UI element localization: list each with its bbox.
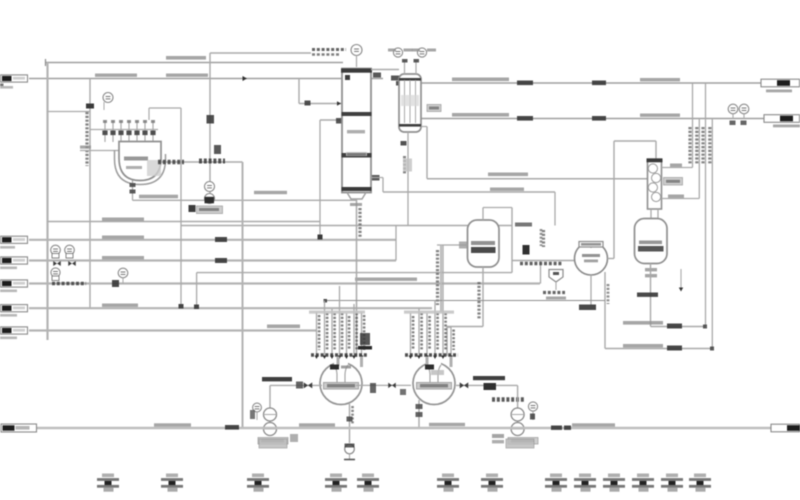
instrument on E-201 top b [417, 48, 426, 57]
wire: reactor bottoms line y200.3 [133, 199, 357, 201]
wire: branch y111 [48, 111, 91, 113]
tags near x551 on bottom line [551, 426, 562, 430]
valve manifold B verticals [410, 313, 412, 357]
wire: E-201 bottom drop x408 [407, 142, 409, 226]
wire: V-301 top riser [482, 208, 484, 221]
wire: B right line y385.4 [456, 384, 518, 386]
drain assembly D1 [102, 474, 114, 478]
wire: vertical v2 x699.3 (H5 to T2 lower) [698, 119, 700, 199]
wire: reactor outlet bottom [132, 181, 134, 201]
label: P-501A tag [258, 438, 288, 445]
wire: vertical x210 (y53-200) [209, 53, 211, 197]
valve on A left line [304, 382, 313, 388]
inline filter x526 [523, 245, 530, 255]
wire: feed line H2 from left flag (y78.5) [29, 78, 383, 80]
drain assembly D2 [166, 474, 178, 478]
wire: riser x540 to compressor suction [540, 261, 542, 284]
wire: transfer line y178.7 [427, 178, 648, 180]
wire: line L-F5 (y308.2) [29, 307, 432, 309]
wire: reactor product line y162 [158, 161, 243, 163]
label: column internals text [347, 130, 365, 133]
wire: B bottom drop [418, 400, 420, 428]
wire: elbow x396 [395, 226, 397, 261]
unit M-501 (dryer A) [320, 363, 362, 405]
drain assembly D10 [608, 474, 620, 478]
label: bottom line text 2 [299, 423, 335, 426]
stream flag F6 (y330.5) [1, 327, 28, 334]
wire: column feed arrow (y103.5) [299, 103, 342, 105]
label: reboiler tag box [664, 178, 683, 186]
label: line tag right of B [473, 376, 505, 380]
label: bottom line text 3 [429, 423, 465, 426]
instrument on F4 line [118, 268, 128, 278]
wire: line L-F2 (y239.8) [29, 239, 396, 241]
stream flag F4 (y283.5) [1, 280, 28, 287]
wire: compressor discharge [608, 258, 615, 260]
valve a on F3 line [53, 261, 61, 266]
wire: riser x299 from H2 [298, 79, 300, 104]
label: bottom line text 4 [572, 423, 615, 426]
instrument PI on column top [351, 45, 362, 56]
column T-402 top cap [647, 159, 663, 163]
stream flag OUT-1 (right) [761, 79, 800, 87]
wire: V-401 bottoms drop [650, 264, 652, 327]
label: E-201 tag box [427, 105, 441, 112]
wire: line H3 (y53) to column top [210, 52, 311, 54]
column T-201 mid tray band [342, 112, 372, 116]
label: vertical line tag v2 [695, 127, 698, 165]
wire: drop arrow x681 [680, 269, 682, 289]
wire: T-402 side nozzle y198.5 [662, 198, 700, 200]
column T-201 shell [342, 69, 371, 193]
wire: drop x447 to manifold B [446, 327, 448, 357]
label: box above bottom line x509 [506, 439, 534, 448]
wire: main left vertical x47.5 [46, 63, 48, 341]
instrument near P-501B [528, 402, 537, 411]
valve manifold B header row [405, 353, 458, 356]
instrument FI-a on H5 [728, 104, 738, 114]
reactor R-101 jacket [115, 150, 166, 185]
drain assembly D9 [579, 474, 591, 478]
valve cluster on y162 (left) [158, 160, 184, 165]
wire: A bottom drop [349, 404, 351, 443]
column T-402 shell [648, 159, 662, 209]
wire: A left line y385.4 [270, 384, 322, 386]
instrument pair on x210 [205, 182, 215, 192]
column T-402 packing balls [648, 164, 657, 173]
label: T1 tag cluster [312, 48, 346, 51]
valve manifold A verticals [316, 312, 318, 357]
stream flag F2 (y239.8) [1, 236, 28, 243]
wire: line y225.5 [181, 225, 512, 227]
wire: header y207.5 [483, 207, 512, 209]
drum V-301 shell [468, 220, 500, 267]
vessel V-401 shell [635, 219, 668, 264]
control valve group A [360, 333, 370, 345]
label: V-401 bottom text [645, 268, 657, 271]
wire: vertical x320 (y120-237) [319, 120, 321, 237]
drain assembly D6 [442, 474, 454, 478]
wire: loop header y108 [149, 107, 181, 109]
wire: header y141 to T2 [614, 140, 656, 142]
column T-201 bottom band [342, 187, 372, 191]
drain assembly D13 [694, 474, 706, 478]
label: vertical line tag v3 [701, 127, 704, 165]
wire: T2 inlet drop x656 [655, 141, 657, 160]
exchanger E-201 tubes [404, 80, 406, 123]
stream flag IN-1 (top left) [1, 75, 28, 82]
wire: vertical x512 (207-272) [511, 208, 513, 273]
valve station left of P-B [492, 397, 525, 402]
wire: line L-F4 (y283.5) [29, 282, 540, 284]
wire: vertical x90 [89, 79, 91, 310]
drain assembly D5 [362, 474, 374, 478]
label: vertical tag x540 [542, 230, 545, 247]
exchanger E-201 shell [399, 74, 421, 132]
wire: line y192 [383, 191, 555, 193]
instrument FI-b on H5 [739, 104, 749, 114]
stream flag bottom-right [771, 424, 800, 432]
column T-201 top cap [341, 69, 372, 73]
wire: stub x196 down [196, 273, 198, 309]
valve b on F3 line [68, 261, 76, 266]
wire: x320 end tick [318, 235, 323, 240]
compressor K-401 [575, 242, 608, 275]
wire: vertical x555 [554, 192, 556, 226]
drain assembly D3 [252, 474, 264, 478]
wire: vertical v3 x705.5 (H4 down to y326) [705, 83, 707, 327]
wire: pentagon drop [555, 282, 557, 290]
wire: bottom collection line y428 [37, 427, 771, 430]
label: vertical text on x90 [85, 112, 88, 166]
label: line tag left of A [262, 377, 292, 381]
pump P-501B [511, 408, 524, 421]
wire: line L-F6 (y330.5) [29, 329, 317, 331]
wire: elbow y326.5 [447, 326, 483, 328]
wire: E-201 side drop x427 [421, 126, 427, 128]
wire: compressor drop x605 [604, 272, 606, 349]
wire: overhead line H4 (y83) [421, 82, 762, 84]
wire: E-201 bottom neck [407, 132, 409, 142]
valve manifold on reactor nozzles [104, 121, 106, 143]
valve cluster on y162 (at x210) [199, 159, 225, 164]
label: tag above A [330, 365, 339, 370]
label: box above bottom line x262 [259, 439, 287, 448]
stream flag F5 (y308.2) [1, 305, 28, 312]
wire: E-201 vent stubs [404, 60, 406, 74]
wire: line L-F3 (y260.5) [29, 259, 396, 261]
wire: vertical x441 into manifold B [440, 245, 442, 312]
wire: vertical v1 x692.5 (H4 to T2) [692, 83, 694, 168]
pump P-501A [264, 408, 277, 421]
instrument below F3 [51, 268, 60, 277]
wire: line y221.5 [48, 221, 321, 223]
wire: column feed 2 (y120) [320, 119, 342, 121]
wire: A-B link valves [356, 384, 411, 386]
instrument on E-201 top a [393, 48, 402, 57]
drain assembly D7 [486, 474, 498, 478]
drain assembly D8 [550, 474, 562, 478]
wire: vertical x383 (177.5-192) [382, 178, 384, 193]
label: P-501B tag [508, 438, 538, 445]
stream flag OUT-2 (right) [764, 115, 800, 123]
label: vertical tag x541b [540, 229, 543, 246]
column T-201 lower band [342, 153, 372, 158]
utility marker (pentagon) [549, 270, 563, 283]
wire: dark link line y300.5 [325, 300, 605, 302]
wire: vertical x242.5 [242, 162, 244, 428]
tags near x225 on bottom line [225, 425, 239, 430]
wire: compressor bottom drop [590, 275, 592, 305]
drum V-301 level band [471, 247, 496, 253]
wire: reactor feed header y129.5 [90, 129, 158, 131]
wire: line y272.6 [197, 272, 512, 274]
wire: line y348.5 right [605, 348, 712, 350]
label: tag above B [425, 365, 434, 370]
valve on B right line [460, 382, 469, 388]
drain assembly D4 [330, 474, 342, 478]
instrument pair on F3 line [51, 245, 61, 255]
wire: V-301 inlet y245 [437, 244, 468, 246]
wire: bottoms line H5 (y118.5) [421, 118, 765, 120]
wire: line y326.5 right [651, 326, 706, 328]
wire: pump P-A drop x270 [269, 385, 271, 428]
exchanger E-201 tubesheets [399, 78, 421, 81]
wire: column bottom outlet [347, 193, 366, 200]
label: reactor internals text [124, 157, 148, 161]
wire: column overhead to exchanger [371, 69, 399, 71]
instrument TI reactor top [103, 93, 113, 103]
wire: V-301 bottom drop [482, 267, 484, 327]
junction block at (210,200) [205, 197, 215, 204]
wire: reactor side feed y150.5 [80, 150, 119, 152]
drain assembly D11 [637, 474, 649, 478]
wire: feed line H1 (y62) [46, 62, 344, 64]
vessel V-401 level band [638, 246, 664, 252]
wire: discharge riser x614 [613, 141, 615, 259]
wire: pump P-B drop x517.6 [517, 385, 519, 428]
valve manifold A header row [311, 353, 368, 356]
wire: column right nozzle y177.5 [371, 177, 383, 179]
label: vertical line tag v4 [708, 127, 711, 165]
stream flag F3 (y260.5) [1, 257, 28, 264]
wire: A inlet stubs [337, 357, 340, 367]
wire: compressor suction y260.5 [512, 260, 575, 262]
pump label under x210 [189, 205, 196, 212]
label: vertical line tag v1 [688, 127, 691, 165]
stream flag bottom-left [1, 424, 37, 432]
wire: T-402 side nozzle y167.5 [662, 167, 693, 169]
drain pot under A [345, 444, 355, 454]
drain assembly D12 [666, 474, 678, 478]
wire: B inlet stubs [426, 357, 429, 367]
wire: vertical x181 [180, 108, 182, 307]
unit M-502 (dryer B) [413, 363, 455, 405]
label: bottom line text 1 [154, 423, 191, 426]
wire: manifold B right link [447, 326, 451, 328]
wire: vertical v4 x712.3 (H5 down to y348) [711, 119, 713, 349]
wire: T-402 neck [650, 209, 652, 219]
reactor R-101 body [119, 142, 161, 181]
instrument near P-501A [253, 403, 262, 412]
